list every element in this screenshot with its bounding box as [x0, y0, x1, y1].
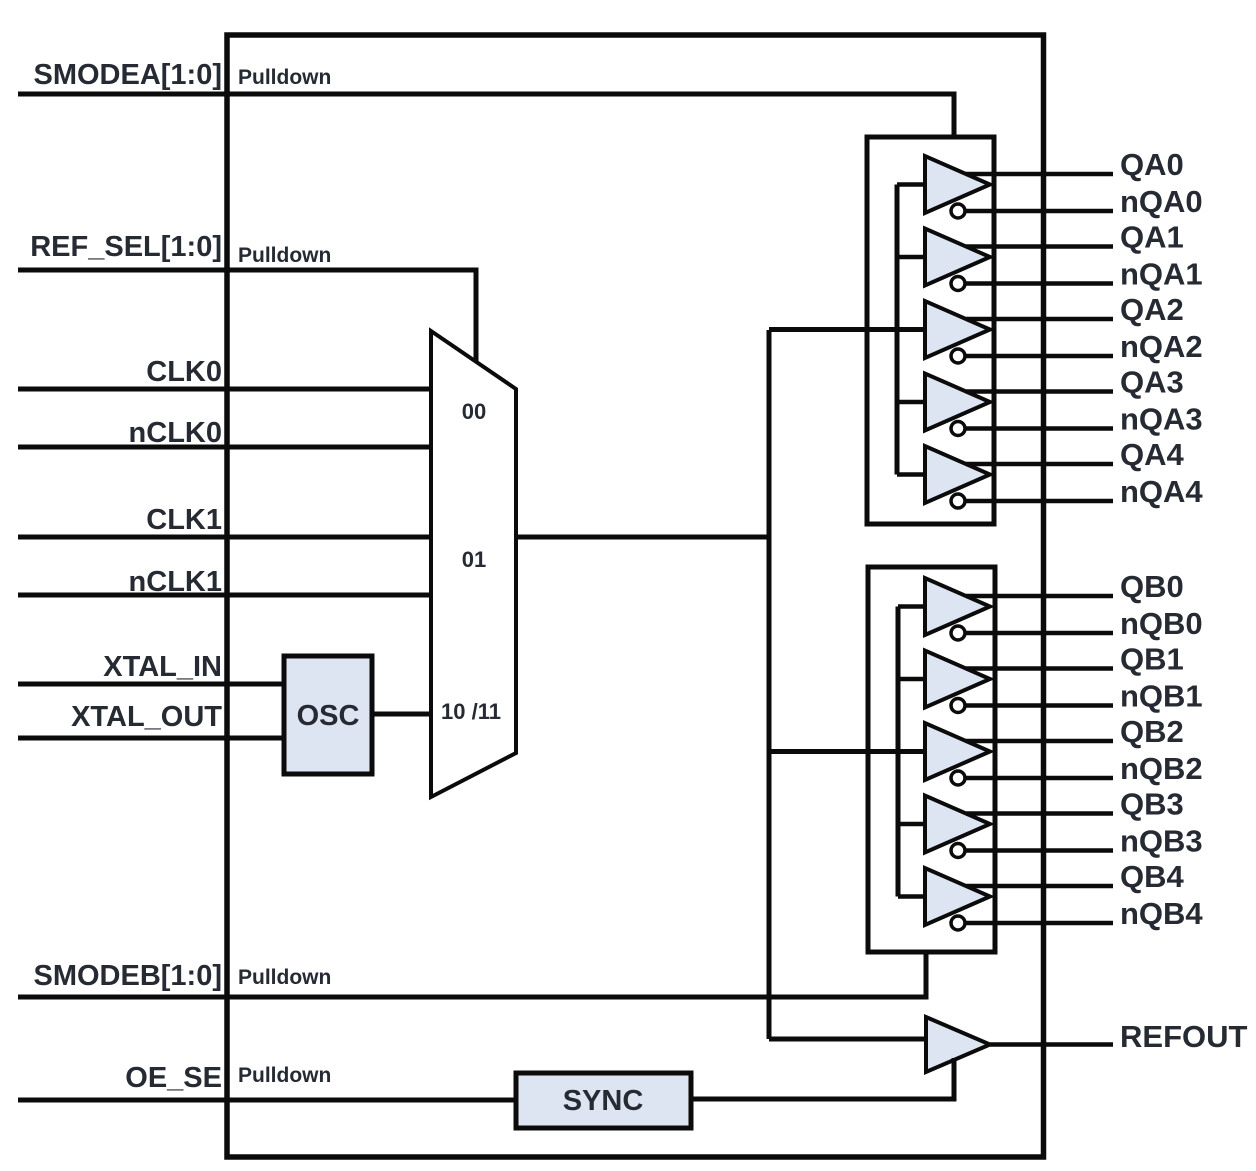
svg-text:nQB4: nQB4 — [1120, 896, 1203, 931]
wire nCLK1 to mux — [18, 593, 431, 598]
svg-text:SYNC: SYNC — [563, 1085, 644, 1117]
wire output nQB1 — [965, 703, 1113, 708]
inversion bubble nQA3 — [951, 422, 965, 436]
svg-text:10 /11: 10 /11 — [441, 699, 501, 724]
wire bank A buffer input stubs — [897, 185, 925, 475]
wire SMODEA[1:0] to bank A enable — [18, 94, 954, 139]
svg-text:SMODEA[1:0]: SMODEA[1:0] — [33, 59, 222, 91]
svg-text:QA0: QA0 — [1120, 147, 1184, 182]
wire SYNC output to REFOUT enable — [691, 1058, 954, 1099]
chip boundary U1 — [227, 35, 1044, 1157]
svg-text:QA1: QA1 — [1120, 220, 1184, 255]
svg-text:QA3: QA3 — [1120, 365, 1184, 400]
wire REFOUT output — [990, 1042, 1113, 1047]
wire CLK0 to mux — [18, 387, 431, 392]
svg-text:nQB3: nQB3 — [1120, 824, 1203, 859]
differential buffer B3 — [925, 796, 990, 853]
svg-text:nQB2: nQB2 — [1120, 751, 1203, 786]
differential buffer A3 — [925, 374, 990, 431]
svg-text:QB0: QB0 — [1120, 569, 1184, 604]
svg-text:nQB1: nQB1 — [1120, 679, 1203, 714]
wire CLK1 to mux — [18, 535, 431, 540]
bank A output buffer group box — [867, 137, 994, 524]
wire clock distribution vertical — [767, 330, 772, 1039]
differential buffer A2 — [925, 301, 990, 358]
inversion bubble nQA0 — [951, 204, 965, 218]
svg-text:OSC: OSC — [297, 700, 360, 732]
differential buffer B0 — [925, 578, 990, 635]
wire output QA3 — [966, 389, 1113, 394]
wire output nQA4 — [965, 499, 1113, 504]
svg-text:nQA1: nQA1 — [1120, 257, 1203, 292]
REFOUT buffer — [926, 1017, 990, 1072]
wire REFOUT buffer input — [769, 1037, 926, 1042]
wire output QA2 — [966, 317, 1113, 322]
svg-text:QB3: QB3 — [1120, 787, 1184, 822]
wire REF_SEL[1:0] to mux select — [18, 270, 476, 362]
svg-text:XTAL_OUT: XTAL_OUT — [71, 701, 222, 733]
svg-text:nQA0: nQA0 — [1120, 184, 1203, 219]
differential buffer B1 — [925, 651, 990, 708]
wire XTAL_OUT to OSC — [18, 736, 284, 741]
wire output QB2 — [966, 739, 1113, 744]
inversion bubble nQA1 — [951, 277, 965, 291]
svg-text:REF_SEL[1:0]: REF_SEL[1:0] — [30, 231, 222, 263]
wire output nQB3 — [965, 848, 1113, 853]
differential buffer A0 — [925, 156, 990, 213]
wire output QB1 — [966, 666, 1113, 671]
oscillator block OSC — [284, 656, 372, 774]
differential buffer B2 — [925, 723, 990, 780]
svg-text:QB1: QB1 — [1120, 642, 1184, 677]
wire bank B input feed vertical — [896, 607, 901, 897]
svg-text:nQA3: nQA3 — [1120, 402, 1203, 437]
svg-text:CLK0: CLK0 — [146, 356, 222, 388]
inversion bubble nQB0 — [951, 626, 965, 640]
wire output QA0 — [966, 172, 1113, 177]
svg-text:Pulldown: Pulldown — [238, 66, 331, 89]
wire nCLK0 to mux — [18, 445, 431, 450]
wire output nQB0 — [965, 631, 1113, 636]
svg-text:OE_SE: OE_SE — [125, 1062, 222, 1094]
svg-text:00: 00 — [462, 399, 486, 424]
inversion bubble nQB1 — [951, 699, 965, 713]
svg-text:01: 01 — [462, 547, 486, 572]
inversion bubble nQA4 — [951, 494, 965, 508]
wire output QB4 — [966, 884, 1113, 889]
wire output QA4 — [966, 462, 1113, 467]
wire mux output — [516, 535, 769, 540]
wire bank A input feed vertical — [895, 185, 900, 475]
svg-text:SMODEB[1:0]: SMODEB[1:0] — [33, 960, 222, 992]
wire XTAL_IN to OSC — [18, 682, 284, 687]
wire output nQA1 — [965, 281, 1113, 286]
bank B output buffer group box — [868, 567, 995, 952]
differential buffer A1 — [925, 229, 990, 286]
wire output nQB2 — [965, 776, 1113, 781]
wire output nQA0 — [965, 209, 1113, 214]
differential buffer B4 — [925, 868, 990, 925]
wire output QA1 — [966, 244, 1113, 249]
inversion bubble nQA2 — [951, 349, 965, 363]
wire output nQA2 — [965, 354, 1113, 359]
svg-text:Pulldown: Pulldown — [238, 966, 331, 989]
svg-text:CLK1: CLK1 — [146, 504, 222, 536]
wire output nQB4 — [965, 921, 1113, 926]
wire bank A input — [769, 327, 925, 332]
inversion bubble nQB3 — [951, 844, 965, 858]
input mux (reference select) — [431, 331, 516, 797]
svg-text:Pulldown: Pulldown — [238, 1064, 331, 1087]
wire OSC output to mux — [372, 712, 431, 717]
wire bank B input — [769, 749, 925, 754]
wire output QB3 — [966, 811, 1113, 816]
svg-text:QB2: QB2 — [1120, 714, 1184, 749]
differential buffer A4 — [925, 446, 990, 503]
svg-text:nQA2: nQA2 — [1120, 329, 1203, 364]
svg-text:QA2: QA2 — [1120, 292, 1184, 327]
wire output nQA3 — [965, 426, 1113, 431]
sync block SYNC — [516, 1073, 691, 1128]
wire OE_SE to SYNC — [18, 1098, 516, 1103]
svg-text:QB4: QB4 — [1120, 859, 1185, 894]
wire SMODEB[1:0] to bank B enable — [18, 950, 926, 997]
svg-text:QA4: QA4 — [1120, 437, 1185, 472]
inversion bubble nQB4 — [951, 916, 965, 930]
svg-text:nQB0: nQB0 — [1120, 606, 1203, 641]
svg-text:nCLK0: nCLK0 — [129, 417, 222, 449]
svg-text:nQA4: nQA4 — [1120, 474, 1203, 509]
svg-text:REFOUT: REFOUT — [1120, 1019, 1248, 1054]
inversion bubble nQB2 — [951, 771, 965, 785]
svg-text:Pulldown: Pulldown — [238, 244, 331, 267]
wire output QB0 — [966, 594, 1113, 599]
svg-text:XTAL_IN: XTAL_IN — [103, 651, 222, 683]
wire bank B buffer input stubs — [898, 607, 925, 897]
